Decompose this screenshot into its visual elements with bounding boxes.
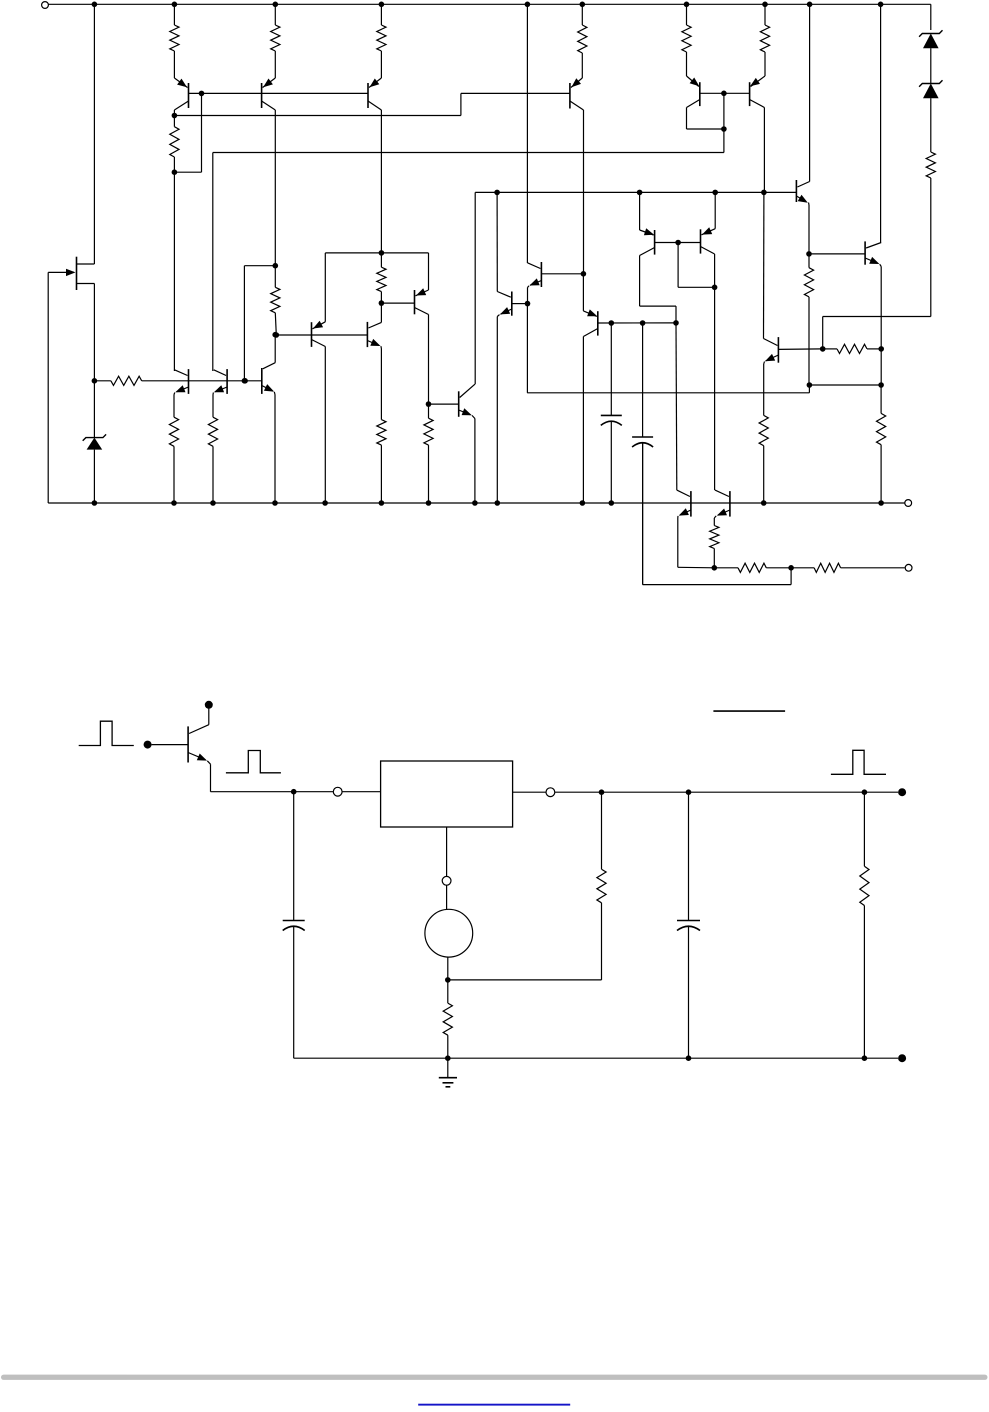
junction on bottom bus bbox=[761, 500, 767, 506]
junction bbox=[272, 332, 278, 338]
wire base pair bbox=[655, 242, 701, 244]
capacitor C4 bbox=[677, 792, 700, 1058]
junction bbox=[862, 1055, 868, 1061]
wire bbox=[274, 335, 276, 363]
wire bbox=[513, 791, 546, 793]
wire bbox=[841, 567, 905, 569]
junction bbox=[494, 190, 500, 196]
wire y385 bbox=[809, 384, 881, 386]
transistor Q23 (npn) bbox=[714, 490, 730, 518]
wire base bbox=[809, 253, 865, 255]
resistor R11 bbox=[271, 266, 280, 335]
wire bbox=[930, 4, 932, 30]
wire bbox=[201, 93, 203, 172]
wire bbox=[642, 443, 644, 585]
wire bbox=[930, 98, 932, 152]
wire bbox=[447, 957, 449, 980]
transistor Q6 (pnp) bbox=[750, 76, 765, 108]
wire bbox=[174, 171, 201, 173]
wire bbox=[610, 323, 612, 415]
wire y192 bbox=[475, 191, 796, 193]
junction bbox=[675, 240, 681, 246]
wire bbox=[274, 395, 276, 503]
junction bbox=[581, 271, 587, 277]
zener D3 bbox=[919, 80, 942, 98]
transistor Q16 (npn) bbox=[367, 322, 381, 349]
jfet J1 bbox=[48, 257, 94, 290]
wire bbox=[582, 337, 584, 504]
wire base bus bbox=[189, 92, 369, 94]
transistor Q24 (npn) bbox=[188, 705, 210, 764]
wire base y404 bbox=[429, 403, 459, 405]
transistor Q5 (pnp) bbox=[687, 76, 700, 108]
junction on bottom bus bbox=[171, 500, 177, 506]
wire base bbox=[512, 303, 528, 305]
wire bbox=[713, 549, 715, 568]
wire bbox=[713, 518, 715, 526]
wire bbox=[380, 303, 382, 322]
wire bbox=[446, 885, 448, 909]
wire bbox=[526, 304, 528, 393]
transistor Q10 (pnp) bbox=[640, 192, 655, 255]
resistor bias bbox=[377, 4, 386, 78]
transistor Q13 (npn) bbox=[497, 292, 512, 317]
transistor Q4 (pnp) bbox=[570, 78, 584, 110]
transistor Q19 (npn) bbox=[174, 369, 189, 394]
wire bbox=[93, 450, 95, 503]
resistor R22 bbox=[860, 792, 869, 1058]
junction bbox=[199, 91, 205, 97]
one-shot box U1 bbox=[381, 761, 513, 827]
pulse glyph input bbox=[79, 721, 134, 745]
meter M1 bbox=[425, 909, 473, 957]
junction on bottom bus bbox=[379, 500, 385, 506]
wire bbox=[324, 347, 326, 503]
wire bbox=[555, 791, 898, 793]
wire bbox=[212, 395, 214, 418]
junction bbox=[274, 332, 280, 338]
junction bbox=[820, 346, 826, 352]
capacitor C1 bbox=[601, 415, 622, 425]
wire bbox=[93, 4, 95, 264]
wire base bbox=[700, 92, 750, 94]
wire bbox=[211, 764, 294, 792]
wire bbox=[324, 253, 326, 322]
wire bbox=[880, 267, 882, 349]
terminal collector bbox=[205, 701, 213, 709]
junction bbox=[878, 382, 884, 388]
junction bbox=[92, 500, 98, 506]
junction bbox=[788, 565, 794, 571]
resistor R20 bbox=[814, 563, 841, 572]
capacitor C2 bbox=[632, 437, 653, 447]
junction bbox=[599, 789, 605, 795]
junction bbox=[640, 320, 646, 326]
junction on VCC rail bbox=[762, 2, 768, 8]
wire bbox=[474, 192, 476, 384]
wire bbox=[173, 172, 175, 371]
transistor Q22 (npn) bbox=[677, 490, 691, 518]
transistor Q11 (pnp) bbox=[701, 192, 716, 254]
pulse glyph base bbox=[226, 751, 281, 773]
wire bbox=[678, 243, 715, 288]
wire bbox=[823, 317, 931, 349]
transistor Q20 (npn) bbox=[213, 369, 227, 394]
resistor R14 bbox=[424, 404, 433, 503]
wire bbox=[93, 284, 95, 381]
junction bbox=[686, 789, 692, 795]
resistor R17 bbox=[208, 417, 217, 446]
transistor Q18 (npn) bbox=[459, 384, 475, 418]
transistor Q1 (pnp) bbox=[174, 78, 188, 110]
wire bbox=[274, 110, 276, 266]
zener D2 bbox=[919, 30, 942, 48]
pulse glyph output bbox=[831, 750, 886, 774]
junction bbox=[712, 190, 718, 196]
junction bbox=[379, 250, 385, 256]
terminal out- bbox=[898, 1054, 906, 1062]
transistor (pnp) bbox=[262, 78, 276, 110]
wire bbox=[823, 348, 882, 350]
junction on VCC rail bbox=[273, 2, 279, 8]
resistor bias bbox=[170, 4, 179, 78]
capacitor C3 bbox=[283, 792, 305, 1058]
node GND bus bbox=[48, 502, 905, 504]
junction bbox=[291, 789, 297, 795]
wire bbox=[763, 364, 765, 415]
junction bbox=[445, 977, 451, 983]
junction on bottom bus bbox=[878, 500, 884, 506]
footer divider bbox=[1, 1375, 988, 1380]
junction on VCC rail bbox=[92, 2, 98, 8]
wire feedback bbox=[448, 903, 602, 980]
terminal box-in bbox=[333, 787, 342, 796]
wire bbox=[880, 349, 882, 385]
wire bbox=[496, 192, 498, 291]
wire bbox=[526, 4, 528, 263]
wire y152 bbox=[213, 152, 724, 154]
junction bbox=[807, 382, 813, 388]
junction bbox=[862, 789, 868, 795]
resistor R12 bbox=[377, 253, 386, 303]
terminal out+ bbox=[898, 788, 906, 796]
terminal T3 bbox=[905, 564, 912, 571]
wire base y303 bbox=[381, 302, 414, 304]
transistor Q7 (npn) bbox=[796, 180, 809, 205]
resistor R10 bbox=[877, 385, 886, 503]
wire base bbox=[778, 348, 822, 351]
wire bbox=[714, 254, 716, 490]
resistor R13 bbox=[377, 349, 386, 504]
junction on VCC rail bbox=[878, 2, 884, 8]
wire bbox=[930, 48, 932, 83]
wire bbox=[93, 381, 95, 438]
node B bbox=[172, 113, 178, 119]
wire bbox=[763, 446, 765, 503]
junction on VCC rail bbox=[807, 2, 813, 8]
wire y252 bbox=[325, 252, 428, 254]
terminal box-out bbox=[546, 788, 555, 797]
wire bbox=[723, 129, 725, 153]
wire bbox=[527, 385, 809, 393]
wire bbox=[173, 110, 175, 116]
junction on bottom bus bbox=[472, 500, 478, 506]
junction on VCC rail bbox=[525, 2, 531, 8]
junction bbox=[721, 91, 727, 97]
wire bbox=[428, 315, 430, 405]
junction bbox=[721, 126, 727, 132]
wire bbox=[527, 288, 529, 304]
wire bbox=[640, 256, 676, 323]
transistor Q15 (pnp) bbox=[312, 321, 326, 347]
terminal VCC bbox=[42, 2, 49, 9]
resistor R8 bbox=[837, 344, 867, 353]
transistor Q17 (pnp) bbox=[415, 253, 429, 315]
wire bbox=[687, 128, 724, 130]
resistor R21 bbox=[597, 869, 606, 903]
junction bbox=[609, 320, 615, 326]
junction bbox=[426, 401, 432, 407]
wire bbox=[601, 792, 603, 869]
transistor Q9 (pnp) bbox=[764, 337, 779, 364]
wire bbox=[642, 323, 644, 437]
transistor Q8 (npn) bbox=[865, 241, 881, 266]
junction on bottom bus bbox=[495, 500, 501, 506]
wire bbox=[244, 266, 275, 381]
terminal base input bbox=[144, 741, 152, 749]
junction on VCC rail bbox=[172, 2, 178, 8]
node app-gnd bus bbox=[294, 1057, 898, 1059]
junction bbox=[712, 565, 718, 571]
transistor Q14 (pnp) bbox=[583, 274, 597, 337]
resistor R25 bbox=[760, 4, 769, 76]
resistor R23 bbox=[443, 980, 452, 1058]
junction on VCC rail bbox=[684, 2, 690, 8]
junction bbox=[242, 378, 248, 384]
wire base y335 bbox=[276, 334, 367, 336]
junction on bottom bus bbox=[272, 500, 278, 506]
wire bbox=[723, 93, 725, 129]
transistor (pnp) bbox=[368, 78, 381, 110]
wire bbox=[212, 446, 214, 503]
wire bbox=[809, 4, 811, 181]
junction bbox=[806, 251, 812, 257]
junction bbox=[673, 320, 679, 326]
wire bbox=[152, 744, 189, 746]
wire bbox=[880, 4, 882, 242]
junction bbox=[712, 285, 718, 291]
wire bbox=[342, 791, 381, 793]
wire bbox=[583, 110, 585, 274]
resistor R18 bbox=[710, 526, 719, 549]
resistor R24 bbox=[682, 4, 691, 76]
wire bbox=[643, 443, 792, 585]
wire bbox=[763, 192, 765, 338]
wire bbox=[686, 108, 688, 130]
wire base rail bbox=[94, 380, 261, 382]
wire bbox=[474, 419, 476, 504]
junction on bottom bus bbox=[609, 500, 615, 506]
junction bbox=[273, 263, 279, 269]
resistor R19 bbox=[738, 563, 766, 572]
wire bbox=[212, 153, 214, 372]
junction bbox=[761, 190, 767, 196]
wire base y323 bbox=[598, 322, 676, 324]
resistor R15 bbox=[111, 376, 142, 385]
terminal delay-adj bbox=[442, 876, 451, 885]
wire bbox=[766, 567, 791, 569]
junction on bottom bus bbox=[322, 500, 328, 506]
transistor Q12 (npn) bbox=[528, 262, 542, 288]
junction bbox=[445, 1055, 451, 1061]
wire bbox=[610, 421, 612, 503]
wire bbox=[678, 518, 715, 568]
wire bbox=[808, 205, 810, 254]
wire gate-return bbox=[47, 272, 49, 503]
resistor R16 bbox=[169, 417, 178, 446]
junction bbox=[878, 346, 884, 352]
junction bbox=[525, 301, 531, 307]
resistor bias bbox=[271, 4, 280, 78]
link underline bbox=[418, 1404, 570, 1406]
wire y115 bbox=[174, 93, 570, 115]
junction bbox=[242, 378, 248, 384]
wire bbox=[496, 317, 498, 504]
wire bbox=[714, 567, 738, 569]
wire bbox=[173, 395, 175, 418]
resistor R7 bbox=[926, 152, 935, 178]
wire bbox=[763, 108, 765, 193]
wire bbox=[930, 178, 932, 317]
resistor R4v bbox=[170, 116, 179, 173]
junction on bottom bus bbox=[426, 500, 432, 506]
ground bbox=[439, 1058, 457, 1087]
node A bbox=[92, 378, 98, 384]
junction on VCC rail bbox=[580, 2, 586, 8]
wire base bbox=[541, 273, 583, 275]
wire bbox=[675, 323, 678, 490]
junction on bottom bus bbox=[580, 500, 586, 506]
wire bbox=[173, 446, 175, 503]
transistor Q21 (npn) bbox=[262, 363, 275, 395]
zener D1 bbox=[83, 434, 106, 449]
resistor R6 bbox=[804, 254, 813, 385]
wire bbox=[446, 827, 448, 876]
junction on bottom bus bbox=[210, 500, 216, 506]
junction bbox=[637, 190, 643, 196]
terminal T2 bbox=[905, 500, 912, 507]
resistor R5 bbox=[578, 4, 587, 78]
node VCC rail bbox=[49, 3, 931, 5]
wire bbox=[380, 110, 382, 253]
junction bbox=[379, 300, 385, 306]
resistor R9 bbox=[759, 415, 768, 445]
overline label bbox=[713, 710, 785, 712]
junction bbox=[686, 1055, 692, 1061]
junction on VCC rail bbox=[379, 2, 385, 8]
wire bbox=[294, 791, 335, 793]
wire bbox=[791, 567, 814, 569]
node C bbox=[172, 169, 178, 175]
